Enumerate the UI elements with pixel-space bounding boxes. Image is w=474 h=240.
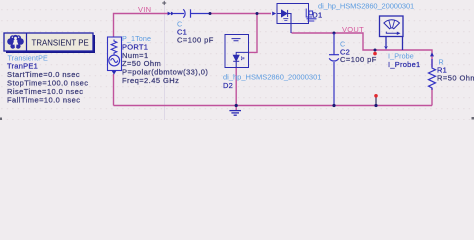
canvas background <box>0 0 474 120</box>
svg-text:D2: D2 <box>223 81 233 90</box>
svg-text:TRANSIENT PE: TRANSIENT PE <box>32 38 89 47</box>
svg-text:di_hp_HSMS2860_20000301: di_hp_HSMS2860_20000301 <box>223 73 321 82</box>
transient controller TRANSIENT PE <box>4 33 95 53</box>
resistor R1 pin arrow <box>430 52 434 56</box>
svg-text:D1: D1 <box>312 10 322 19</box>
capacitor C2 labels <box>340 40 377 65</box>
diode D1 <box>277 4 309 34</box>
diode D1 pin arrow <box>272 12 276 16</box>
node marker cross (top) <box>162 1 166 5</box>
svg-text:VIN: VIN <box>138 5 151 14</box>
junction dot ground rail <box>235 104 238 107</box>
port P_1Tone PORT1 symbol <box>108 37 122 71</box>
svg-text:C=100 pF: C=100 pF <box>177 36 214 45</box>
svg-text:VOUT: VOUT <box>342 25 364 34</box>
svg-text:Freq=2.45 GHz: Freq=2.45 GHz <box>122 76 179 85</box>
capacitor C1 labels <box>177 20 214 45</box>
wire: D2 bottom to ground rail <box>235 68 237 111</box>
svg-text:I_Probe1: I_Probe1 <box>388 60 420 69</box>
svg-text:R=50 Ohm: R=50 Ohm <box>437 74 474 83</box>
junction dot C2 bottom <box>332 104 335 107</box>
junction dot after C1 <box>209 12 212 15</box>
wire: C1 right pin to D1 junction <box>210 13 271 15</box>
svg-text:C=100 pF: C=100 pF <box>340 55 377 64</box>
capacitor C1 pin arrows <box>168 12 175 16</box>
junction dot C2 top <box>333 32 336 35</box>
stub marker on ground rail <box>375 97 377 106</box>
corner mark bottom-right <box>472 117 474 120</box>
current probe I_Probe1 <box>380 16 404 50</box>
page boundary line <box>164 0 166 120</box>
controller icon <box>7 35 24 49</box>
node marker pair on VOUT wire <box>374 49 377 52</box>
port labels <box>122 34 208 85</box>
diode D2 <box>225 35 249 68</box>
probe labels <box>388 52 420 70</box>
wire: D2 branch vertical from top rail <box>249 14 257 53</box>
capacitor C1 <box>174 9 209 17</box>
resistor R1 <box>429 59 436 90</box>
port pin arrow <box>112 71 117 75</box>
probe pin arrow <box>384 46 388 49</box>
D1 package glyph <box>306 9 316 22</box>
ground <box>229 111 241 116</box>
resistor R1 labels <box>437 58 474 83</box>
capacitor C2 <box>329 33 339 106</box>
wire: bottom ground rail <box>114 88 433 106</box>
controller labels <box>7 53 88 104</box>
wire: top VIN rail from source to C1 <box>114 14 169 106</box>
wire: VOUT from D1 to probe and R1 <box>292 33 433 67</box>
corner mark bottom-left <box>0 118 2 121</box>
svg-text:FallTime=10.0 nsec: FallTime=10.0 nsec <box>7 95 80 104</box>
svg-text:di_hp_HSMS2860_20000301: di_hp_HSMS2860_20000301 <box>318 2 414 11</box>
junction dot at D2 branch <box>256 12 259 15</box>
